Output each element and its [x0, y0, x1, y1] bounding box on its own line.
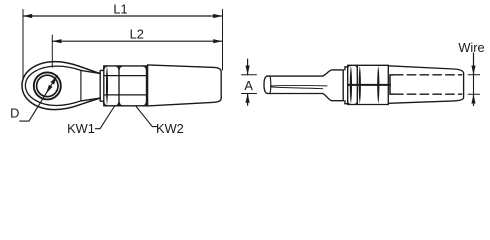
- flare bottom: [323, 94, 344, 101]
- hex KW2 top: [119, 65, 147, 67]
- Wire upper arrow: [473, 53, 475, 75]
- svg-text:D: D: [10, 106, 19, 121]
- cone body left view: [148, 65, 222, 106]
- svg-text:L1: L1: [113, 1, 127, 16]
- Wire lower tick: [468, 93, 480, 95]
- neck bottom line: [81, 98, 100, 101]
- hex flats upper line: [105, 75, 147, 77]
- eye hole inner circle: [37, 75, 58, 96]
- hex corner lens 2: [359, 66, 361, 104]
- Wire dim stem: [473, 75, 475, 95]
- hidden wire line top (dashed): [395, 74, 462, 76]
- dimension A upper arrow: [247, 59, 249, 74]
- rod inner line 1: [271, 84, 327, 87]
- nut right view bottom: [348, 104, 358, 106]
- dimension L2 line: [52, 40, 222, 42]
- hex corner lens 3: [377, 66, 379, 104]
- hex right view bottom: [357, 104, 388, 106]
- centerline: [348, 84, 390, 86]
- nut KW1 top: [104, 65, 119, 67]
- nut right view left edge: [347, 65, 349, 104]
- nut right view chamfers: [348, 65, 358, 104]
- rod cap outer: [264, 76, 267, 93]
- A lower tick: [242, 93, 257, 95]
- rod inner line 2: [271, 87, 323, 89]
- collar left view top: [100, 68, 103, 73]
- svg-text:Wire: Wire: [458, 40, 484, 55]
- L1/L2 extension line right: [222, 10, 224, 71]
- nut KW1 chamfers: [104, 66, 119, 106]
- collar2 step: [345, 67, 348, 104]
- cone right view: [388, 66, 463, 104]
- neck end vertical: [99, 74, 101, 99]
- flare end vertical: [342, 70, 344, 101]
- L2 extension line left: [51, 35, 53, 67]
- eye inner contour: [25, 66, 81, 105]
- dimension L1 line: [23, 15, 222, 17]
- nut right view top: [348, 64, 358, 66]
- hex flats lower line: [105, 94, 147, 96]
- hidden wire line bottom (dashed): [395, 93, 462, 95]
- KW1 leader: [95, 107, 114, 129]
- D arrowhead upper: [51, 75, 58, 84]
- D arrowhead lower: [46, 85, 53, 94]
- nut KW1 bottom: [104, 105, 119, 107]
- svg-text:KW2: KW2: [156, 121, 184, 136]
- collar left view bottom: [100, 98, 103, 103]
- nut KW1 corner lens: [106, 66, 108, 105]
- Wire lower arrow: [473, 94, 475, 105]
- neck top line: [81, 70, 100, 73]
- cone left edge: [147, 65, 149, 106]
- hex corner lens 1: [350, 66, 352, 104]
- hex right view top: [357, 64, 388, 66]
- Wire upper tick: [468, 74, 480, 76]
- rod top edge: [267, 75, 322, 77]
- nut KW1 left edge: [103, 66, 105, 106]
- flare top: [323, 70, 344, 76]
- A upper tick: [242, 74, 257, 76]
- eye outer contour: [22, 62, 100, 110]
- svg-text:KW1: KW1: [67, 121, 95, 136]
- hex KW2 right edge: [146, 66, 148, 106]
- L1 extension line left: [22, 10, 24, 79]
- hex KW2 left edge: [118, 66, 120, 106]
- wire hole end bracket: [390, 75, 394, 94]
- eye hole outer circle: [34, 72, 61, 99]
- hex KW2 chamfers: [119, 66, 147, 106]
- svg-text:L2: L2: [130, 26, 144, 41]
- dimension A lower arrow: [247, 94, 249, 106]
- hex right view right edge: [387, 65, 389, 104]
- svg-text:A: A: [244, 78, 253, 93]
- KW2 leader: [136, 106, 157, 126]
- rod bottom edge: [267, 93, 322, 95]
- eye flat-edge vertical: [80, 70, 82, 101]
- hex right view left edge: [356, 65, 358, 104]
- D leader line: [20, 75, 58, 121]
- hex KW2 bottom: [119, 105, 147, 107]
- rod cap inner arc: [269, 76, 272, 93]
